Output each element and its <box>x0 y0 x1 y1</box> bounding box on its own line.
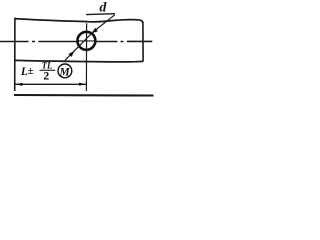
centerline segment inside hole <box>78 40 96 42</box>
part outline: right edge <box>142 22 144 62</box>
svg-text:±: ± <box>28 65 34 77</box>
MMC modifier circle <box>58 64 72 78</box>
label d shoulder line <box>86 13 115 16</box>
bottom border rule <box>14 94 154 97</box>
svg-text:2: 2 <box>43 69 49 83</box>
horizontal dash-dot centerline <box>0 40 152 42</box>
diameter dimension line d: upper segment <box>93 15 115 33</box>
diameter dimension line d: through circle and lower segment <box>65 32 93 60</box>
fraction bar <box>40 69 56 71</box>
right dimension arrowhead <box>79 83 86 86</box>
part outline: top edge <box>15 19 143 23</box>
arrowhead at upper-right of circle <box>92 28 98 33</box>
hole vertical centerline / extension line <box>85 23 87 91</box>
hole circle <box>77 32 95 50</box>
part outline: bottom edge <box>15 60 143 62</box>
dimension line with arrows <box>16 83 87 85</box>
svg-text:M: M <box>59 66 71 78</box>
left dimension arrowhead <box>16 83 23 86</box>
part outline: left edge and dimension extension line <box>14 18 16 91</box>
svg-text:d: d <box>99 1 107 16</box>
arrowhead at lower-left of circle <box>68 51 74 57</box>
